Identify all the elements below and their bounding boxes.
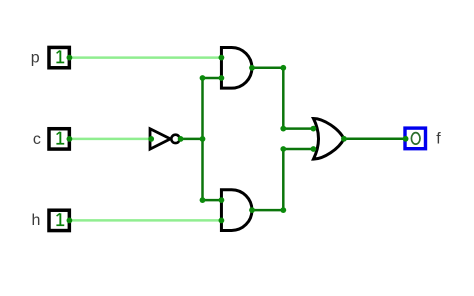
svg-text:p: p — [31, 50, 40, 67]
svg-text:h: h — [32, 212, 41, 229]
svg-text:f: f — [436, 131, 441, 148]
svg-text:c: c — [33, 131, 41, 148]
